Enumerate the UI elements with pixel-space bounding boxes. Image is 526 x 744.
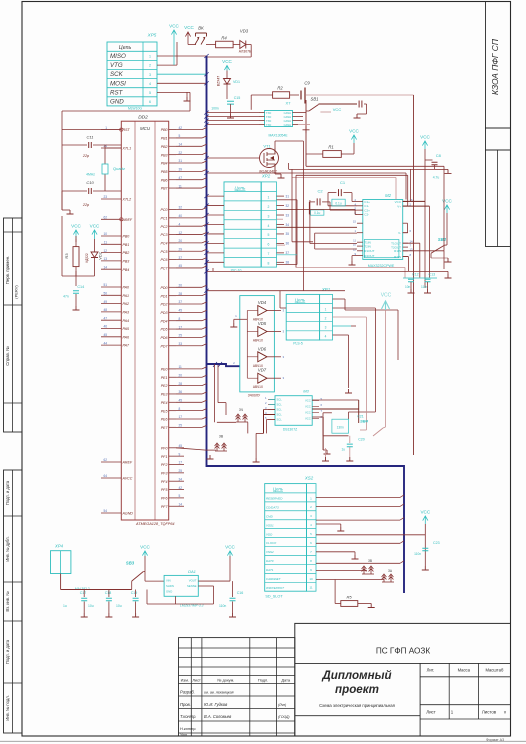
svg-text:3: 3 [325,326,327,330]
svg-text:38: 38 [286,261,290,265]
right margin box 3 [486,150,511,247]
svg-text:C12: C12 [412,273,419,277]
ground under C14 [73,306,80,310]
svg-text:34: 34 [286,223,290,227]
wire buffer input 1 to ground [234,318,248,320]
ground crystal [61,145,63,210]
svg-text:VCC: VCC [305,399,311,403]
svg-text:PE2: PE2 [161,384,168,388]
ground near C8 [445,169,452,173]
svg-text:Вз. инв. №: Вз. инв. № [5,591,10,612]
left margin column upper (Perv. primen / Sprav No) [4,218,23,432]
svg-text:3: 3 [268,214,270,218]
svg-text:VCC: VCC [420,510,430,515]
svg-text:XTL2: XTL2 [122,198,132,202]
wire XP1 row3 vertical [365,317,367,430]
svg-text:CANH: CANH [284,115,291,119]
svg-text:46: 46 [103,325,107,329]
svg-text:SB2: SB2 [438,237,447,242]
svg-text:В.А. Соловьев: В.А. Соловьев [204,714,232,719]
svg-text:39: 39 [179,168,183,172]
svg-text:4MHz: 4MHz [86,173,95,177]
optocoupler U2 [265,111,293,127]
svg-text:DAT1: DAT1 [266,568,274,572]
svg-text:VCC: VCC [333,107,342,112]
svg-text:PE7: PE7 [161,426,169,430]
svg-text:VCC: VCC [420,135,430,140]
svg-text:C2: C2 [317,189,323,194]
title block name cell [419,663,421,736]
svg-text:CMD: CMD [266,514,274,518]
svg-text:Схема электрическая принципиал: Схема электрическая принципиальная [319,703,395,708]
wire XP3 to MAX232 bundle [275,141,357,291]
svg-text:PB4: PB4 [123,268,130,272]
svg-text:VD6: VD6 [258,346,267,351]
svg-text:35: 35 [286,232,290,236]
svg-text:VD7: VD7 [258,368,267,373]
svg-text:CD/DAT3: CD/DAT3 [266,505,279,509]
svg-text:PC3: PC3 [161,233,168,237]
svg-text:10: 10 [103,232,107,236]
svg-text:Инв. № дубл.: Инв. № дубл. [5,536,10,561]
svg-text:VCC: VCC [349,129,359,134]
svg-text:VCC: VCC [71,224,81,229]
IC M3 box [275,396,312,426]
svg-text:11: 11 [179,184,183,188]
right margin box 2 [486,128,511,150]
svg-text:ЗВ: ЗВ [219,435,224,439]
svg-text:TXD: TXD [266,119,271,123]
svg-text:32: 32 [179,206,183,210]
svg-text:36: 36 [286,242,290,246]
svg-text:28: 28 [179,382,183,386]
svg-text:15: 15 [353,220,357,224]
svg-text:ПС ГФП АОЗК: ПС ГФП АОЗК [376,647,430,656]
svg-text:DAT0: DAT0 [266,559,274,563]
svg-text:45: 45 [179,309,183,313]
svg-text:PE5: PE5 [161,409,168,413]
svg-text:VD2: VD2 [99,252,103,259]
svg-text:PA3: PA3 [123,311,130,315]
svg-text:11: 11 [309,586,312,590]
svg-text:11: 11 [104,241,108,245]
svg-text:CARDDET: CARDDET [266,577,282,581]
svg-text:SCL: SCL [277,403,283,407]
capacitor C15 [227,101,234,104]
svg-text:SD_SLOT: SD_SLOT [265,595,283,599]
svg-text:BK: BK [198,26,204,31]
svg-text:PC5: PC5 [161,250,168,254]
resistor R5 [334,580,336,604]
svg-text:6: 6 [149,100,151,104]
ground under VT1 [278,174,285,178]
svg-text:45: 45 [179,264,183,268]
svg-text:PC6: PC6 [161,258,168,262]
svg-text:(PERV): (PERV) [14,285,19,299]
svg-text:PF2: PF2 [161,463,168,467]
svg-text:C16: C16 [237,591,244,595]
svg-text:2: 2 [149,64,151,68]
transistor VT1 [260,149,279,168]
svg-text:R2IN: R2IN [394,255,401,259]
wire bundle bus to XP3 [204,194,224,264]
svg-text:АЛ307Б: АЛ307Б [239,50,252,54]
svg-text:DS1307Z: DS1307Z [283,428,297,432]
svg-text:C13: C13 [429,273,436,277]
svg-text:(ГООД): (ГООД) [278,715,290,719]
ground MAX232 pin 16 [352,255,357,257]
svg-text:VCC: VCC [305,411,311,415]
svg-text:PC2: PC2 [161,225,168,229]
svg-text:XP4: XP4 [54,544,64,549]
svg-text:110n: 110n [414,552,421,556]
svg-text:ATMEGA128_TQFP64: ATMEGA128_TQFP64 [135,522,175,526]
svg-text:PC0: PC0 [161,208,168,212]
svg-text:4.7u: 4.7u [433,176,440,180]
svg-text:5: 5 [268,233,270,237]
svg-text:X7: X7 [286,101,292,106]
svg-text:100n: 100n [211,107,219,111]
svg-text:PF0: PF0 [161,446,168,450]
svg-text:SCL: SCL [277,418,283,422]
svg-text:VOUT: VOUT [189,579,197,583]
ground under C15 [227,114,234,118]
svg-text:Масштаб: Масштаб [485,668,504,673]
regulator ground loop [146,590,148,605]
svg-text:PA1: PA1 [123,294,130,298]
svg-text:Лит.: Лит. [427,668,435,673]
svg-text:VCC: VCC [222,59,232,64]
wire RST [157,91,190,93]
svg-text:14: 14 [103,265,107,269]
svg-text:7: 7 [268,252,270,256]
svg-text:VDD: VDD [266,532,273,536]
svg-text:64: 64 [103,474,107,478]
svg-text:VSS2: VSS2 [266,550,274,554]
svg-text:Цепь: Цепь [119,45,132,51]
svg-text:C17: C17 [80,591,87,595]
svg-text:12: 12 [103,249,107,253]
wire MISO [157,55,207,57]
wire long horizontal pair [306,165,444,167]
svg-text:VCC: VCC [90,224,100,229]
wire top loop to MAX232 [207,172,407,174]
svg-text:PF1: PF1 [161,455,168,459]
svg-text:Разраб.: Разраб. [180,690,195,695]
svg-text:AREF: AREF [122,461,133,465]
svg-text:VIN: VIN [166,579,171,583]
svg-text:MOSI: MOSI [110,80,126,87]
svg-text:Цепь: Цепь [295,298,306,303]
svg-text:C10: C10 [86,180,94,185]
svg-text:22p: 22p [82,203,89,207]
wire MOSI [157,82,207,84]
svg-text:PB4: PB4 [161,162,168,166]
wire XP1 row2 vertical [374,308,376,412]
wire nested rectangles around MAX232 [292,169,410,278]
svg-text:8: 8 [268,262,270,266]
svg-text:XP1: XP1 [321,287,331,292]
svg-text:110n: 110n [219,604,226,608]
svg-text:Подп.: Подп. [258,677,268,682]
battery BK [196,33,207,37]
bus main navy [207,56,405,593]
wire M3 right thick [312,408,359,410]
svg-text:PD4: PD4 [161,319,168,323]
svg-text:33: 33 [286,213,290,217]
wires SD to bus [316,495,404,563]
svg-text:XTL1: XTL1 [122,147,132,151]
svg-text:VTG: VTG [110,62,123,69]
svg-text:R5: R5 [346,595,352,600]
svg-text:DD2: DD2 [138,115,148,121]
svg-text:Подп. и дата: Подп. и дата [5,639,10,664]
svg-text:PF3: PF3 [161,471,168,475]
bus branch to buffers [207,364,240,366]
svg-text:PB1: PB1 [123,243,130,247]
svg-text:4: 4 [325,335,327,339]
svg-text:PA2: PA2 [123,302,130,306]
svg-text:PB2: PB2 [161,145,168,149]
svg-text:40: 40 [179,214,183,218]
svg-text:PLS-5: PLS-5 [293,342,303,346]
svg-text:45: 45 [103,333,107,337]
svg-text:VCC: VCC [169,24,179,29]
svg-text:VCC: VCC [381,293,392,299]
svg-text:Перв. примен.: Перв. примен. [5,256,10,285]
svg-text:R2: R2 [277,86,283,91]
svg-text:№ докум.: № докум. [217,677,234,682]
wire to regulator [145,580,164,582]
svg-text:PB3: PB3 [123,260,130,264]
svg-text:10u: 10u [116,604,122,608]
MCU right side pins [161,126,185,509]
svg-text:Ю.И. Гудков: Ю.И. Гудков [204,702,228,707]
svg-text:PD6: PD6 [161,336,168,340]
svg-text:R1IN: R1IN [394,249,401,253]
svg-text:42: 42 [179,126,183,130]
svg-text:PC4: PC4 [161,242,168,246]
svg-text:4: 4 [179,222,181,226]
svg-text:BZX47: BZX47 [217,76,221,86]
svg-text:PD7: PD7 [161,344,169,348]
ground near ISP [184,97,191,101]
svg-text:ив. ав. лехамцкая: ив. ав. лехамцкая [204,691,234,695]
svg-text:VCC: VCC [305,405,311,409]
svg-text:SB1: SB1 [311,97,319,102]
switch near C20 [373,428,383,436]
svg-text:ЗЧ: ЗЧ [239,408,243,412]
svg-text:2: 2 [325,316,327,320]
svg-text:VT1: VT1 [263,144,271,149]
svg-text:XS2: XS2 [304,476,314,481]
svg-text:1: 1 [105,126,107,130]
SD socket XS2 table [265,484,307,592]
microcontroller DD1 box [121,121,168,520]
svg-text:25: 25 [179,424,183,428]
svg-text:XP2: XP2 [261,174,271,179]
IC DA2 MAX3232 box [363,200,403,260]
title block list row [420,704,510,706]
title block signature grid [179,638,295,736]
svg-text:8: 8 [179,317,181,321]
svg-text:62: 62 [103,216,107,220]
svg-text:V-: V- [398,231,401,235]
resistor R1 [323,151,342,158]
svg-text:АВЧ1Х: АВЧ1Х [253,339,264,343]
svg-text:PF5: PF5 [161,488,168,492]
svg-text:R2OUT: R2OUT [364,254,374,258]
wire VTG to VCC [157,64,177,66]
svg-text:54: 54 [103,509,107,513]
svg-text:Цепь: Цепь [273,487,283,492]
svg-text:CANH: CANH [284,123,291,127]
svg-text:C15: C15 [234,96,241,100]
svg-text:PE3: PE3 [161,393,168,397]
svg-text:47: 47 [103,316,107,320]
connector XP5 ISP table [107,42,157,106]
LED VD3 [240,41,246,49]
svg-text:PE0: PE0 [161,368,168,372]
svg-text:PD5: PD5 [161,328,168,332]
buffer block VD4-VD7 [240,296,275,392]
svg-text:(Лчн): (Лчн) [278,703,286,707]
svg-text:1u: 1u [63,604,67,608]
svg-text:10n: 10n [405,285,411,289]
svg-text:SENSE: SENSE [187,584,197,588]
svg-text:PA7: PA7 [123,344,131,348]
svg-text:PF4: PF4 [161,480,168,484]
svg-text:XP5: XP5 [147,33,157,38]
svg-text:Лист: Лист [192,677,201,682]
ground after R5 [368,604,375,608]
svg-text:47: 47 [179,176,183,180]
svg-text:12: 12 [179,231,183,235]
svg-text:36: 36 [179,390,183,394]
resistor R4 [216,41,234,48]
wire regulator output [198,580,230,582]
svg-text:Листов: Листов [482,710,497,715]
svg-text:PB1: PB1 [161,137,168,141]
svg-text:ЗЧ00ЛУ: ЗЧ00ЛУ [248,393,261,397]
svg-text:RESERVED: RESERVED [266,497,283,501]
svg-text:TXD: TXD [266,115,271,119]
svg-text:VSS1: VSS1 [266,523,274,527]
svg-text:Утв.: Утв. [180,733,188,737]
svg-text:VD3: VD3 [240,29,249,34]
svg-text:C23: C23 [433,541,440,545]
svg-text:SCL: SCL [277,413,283,417]
wires into optocoupler [207,112,260,114]
top right document code box [486,2,511,129]
svg-text:T2IN: T2IN [364,244,371,248]
title block lit massa masshtab [420,676,510,678]
svg-text:PD0: PD0 [161,286,168,290]
svg-text:GND: GND [166,590,172,594]
svg-text:SHDN: SHDN [166,584,174,588]
svg-text:25: 25 [179,469,183,473]
svg-text:Справ. №: Справ. № [5,346,10,366]
svg-text:PD3: PD3 [161,311,168,315]
svg-text:PD1: PD1 [161,294,168,298]
svg-text:34: 34 [179,477,183,481]
ground lower left [207,455,214,459]
svg-text:47n: 47n [63,295,69,299]
svg-text:37: 37 [179,256,183,260]
svg-text:48: 48 [103,308,107,312]
connector XP4 power [51,551,71,574]
svg-text:2: 2 [268,205,270,209]
svg-text:C14: C14 [77,285,84,289]
svg-text:PD2: PD2 [161,303,168,307]
wires M3 [269,399,275,401]
wire bundle MAX232 right [403,201,444,277]
svg-text:VD4: VD4 [258,300,267,305]
svg-text:SB4: SB4 [360,419,369,424]
svg-text:WRITEPROT: WRITEPROT [266,586,285,590]
wire long vertical right [413,95,415,455]
ground under SB2 [445,258,452,262]
svg-text:110n: 110n [421,285,428,289]
wire reset net [62,129,121,131]
svg-text:PC1: PC1 [161,216,168,220]
svg-text:SCL: SCL [277,398,283,402]
wire long horizontal under MAX232 [207,270,449,272]
svg-text:PA5: PA5 [123,327,130,331]
svg-text:14: 14 [179,143,183,147]
wire crystal to XTL [105,147,121,149]
wire power rail [60,574,62,590]
svg-text:PB5: PB5 [161,170,168,174]
svg-text:MISO: MISO [110,53,126,60]
svg-text:КД522: КД522 [85,253,89,263]
svg-text:AVCC: AVCC [122,477,133,481]
ground SD VSS2 [316,551,355,553]
svg-text:PF7: PF7 [161,505,169,509]
ground right of C13 [445,274,452,278]
svg-text:3: 3 [149,73,151,77]
svg-text:VCC: VCC [305,417,311,421]
svg-text:PE1: PE1 [161,376,168,380]
svg-text:проект: проект [335,683,379,696]
ground middle of XP1 wires [348,335,350,388]
svg-text:C9: C9 [304,81,310,86]
svg-text:Пров.: Пров. [180,702,191,707]
svg-text:Лист: Лист [426,710,436,715]
svg-text:C19: C19 [131,591,138,595]
svg-text:Н.контр.: Н.контр. [180,726,196,731]
svg-text:PB2: PB2 [123,251,130,255]
svg-text:M2: M2 [385,193,391,198]
svg-text:MLW10G: MLW10G [128,107,142,111]
svg-text:VCC: VCC [184,25,194,30]
svg-text:C20: C20 [358,438,365,442]
svg-text:Подп. и дата: Подп. и дата [5,480,10,505]
svg-text:PB0: PB0 [161,128,168,132]
svg-text:SCK: SCK [110,71,124,78]
svg-text:31: 31 [179,159,183,163]
svg-text:PB7: PB7 [161,187,169,191]
svg-text:R3: R3 [64,253,69,259]
wire vertical through junction [305,100,307,166]
svg-text:VCC: VCC [225,545,235,550]
svg-text:PE6: PE6 [161,418,168,422]
svg-text:6: 6 [268,243,270,247]
wire long light after C9 [306,94,414,96]
junction cross [303,126,310,133]
ground under diode pair [253,458,260,462]
ground left of C20 [322,457,329,461]
